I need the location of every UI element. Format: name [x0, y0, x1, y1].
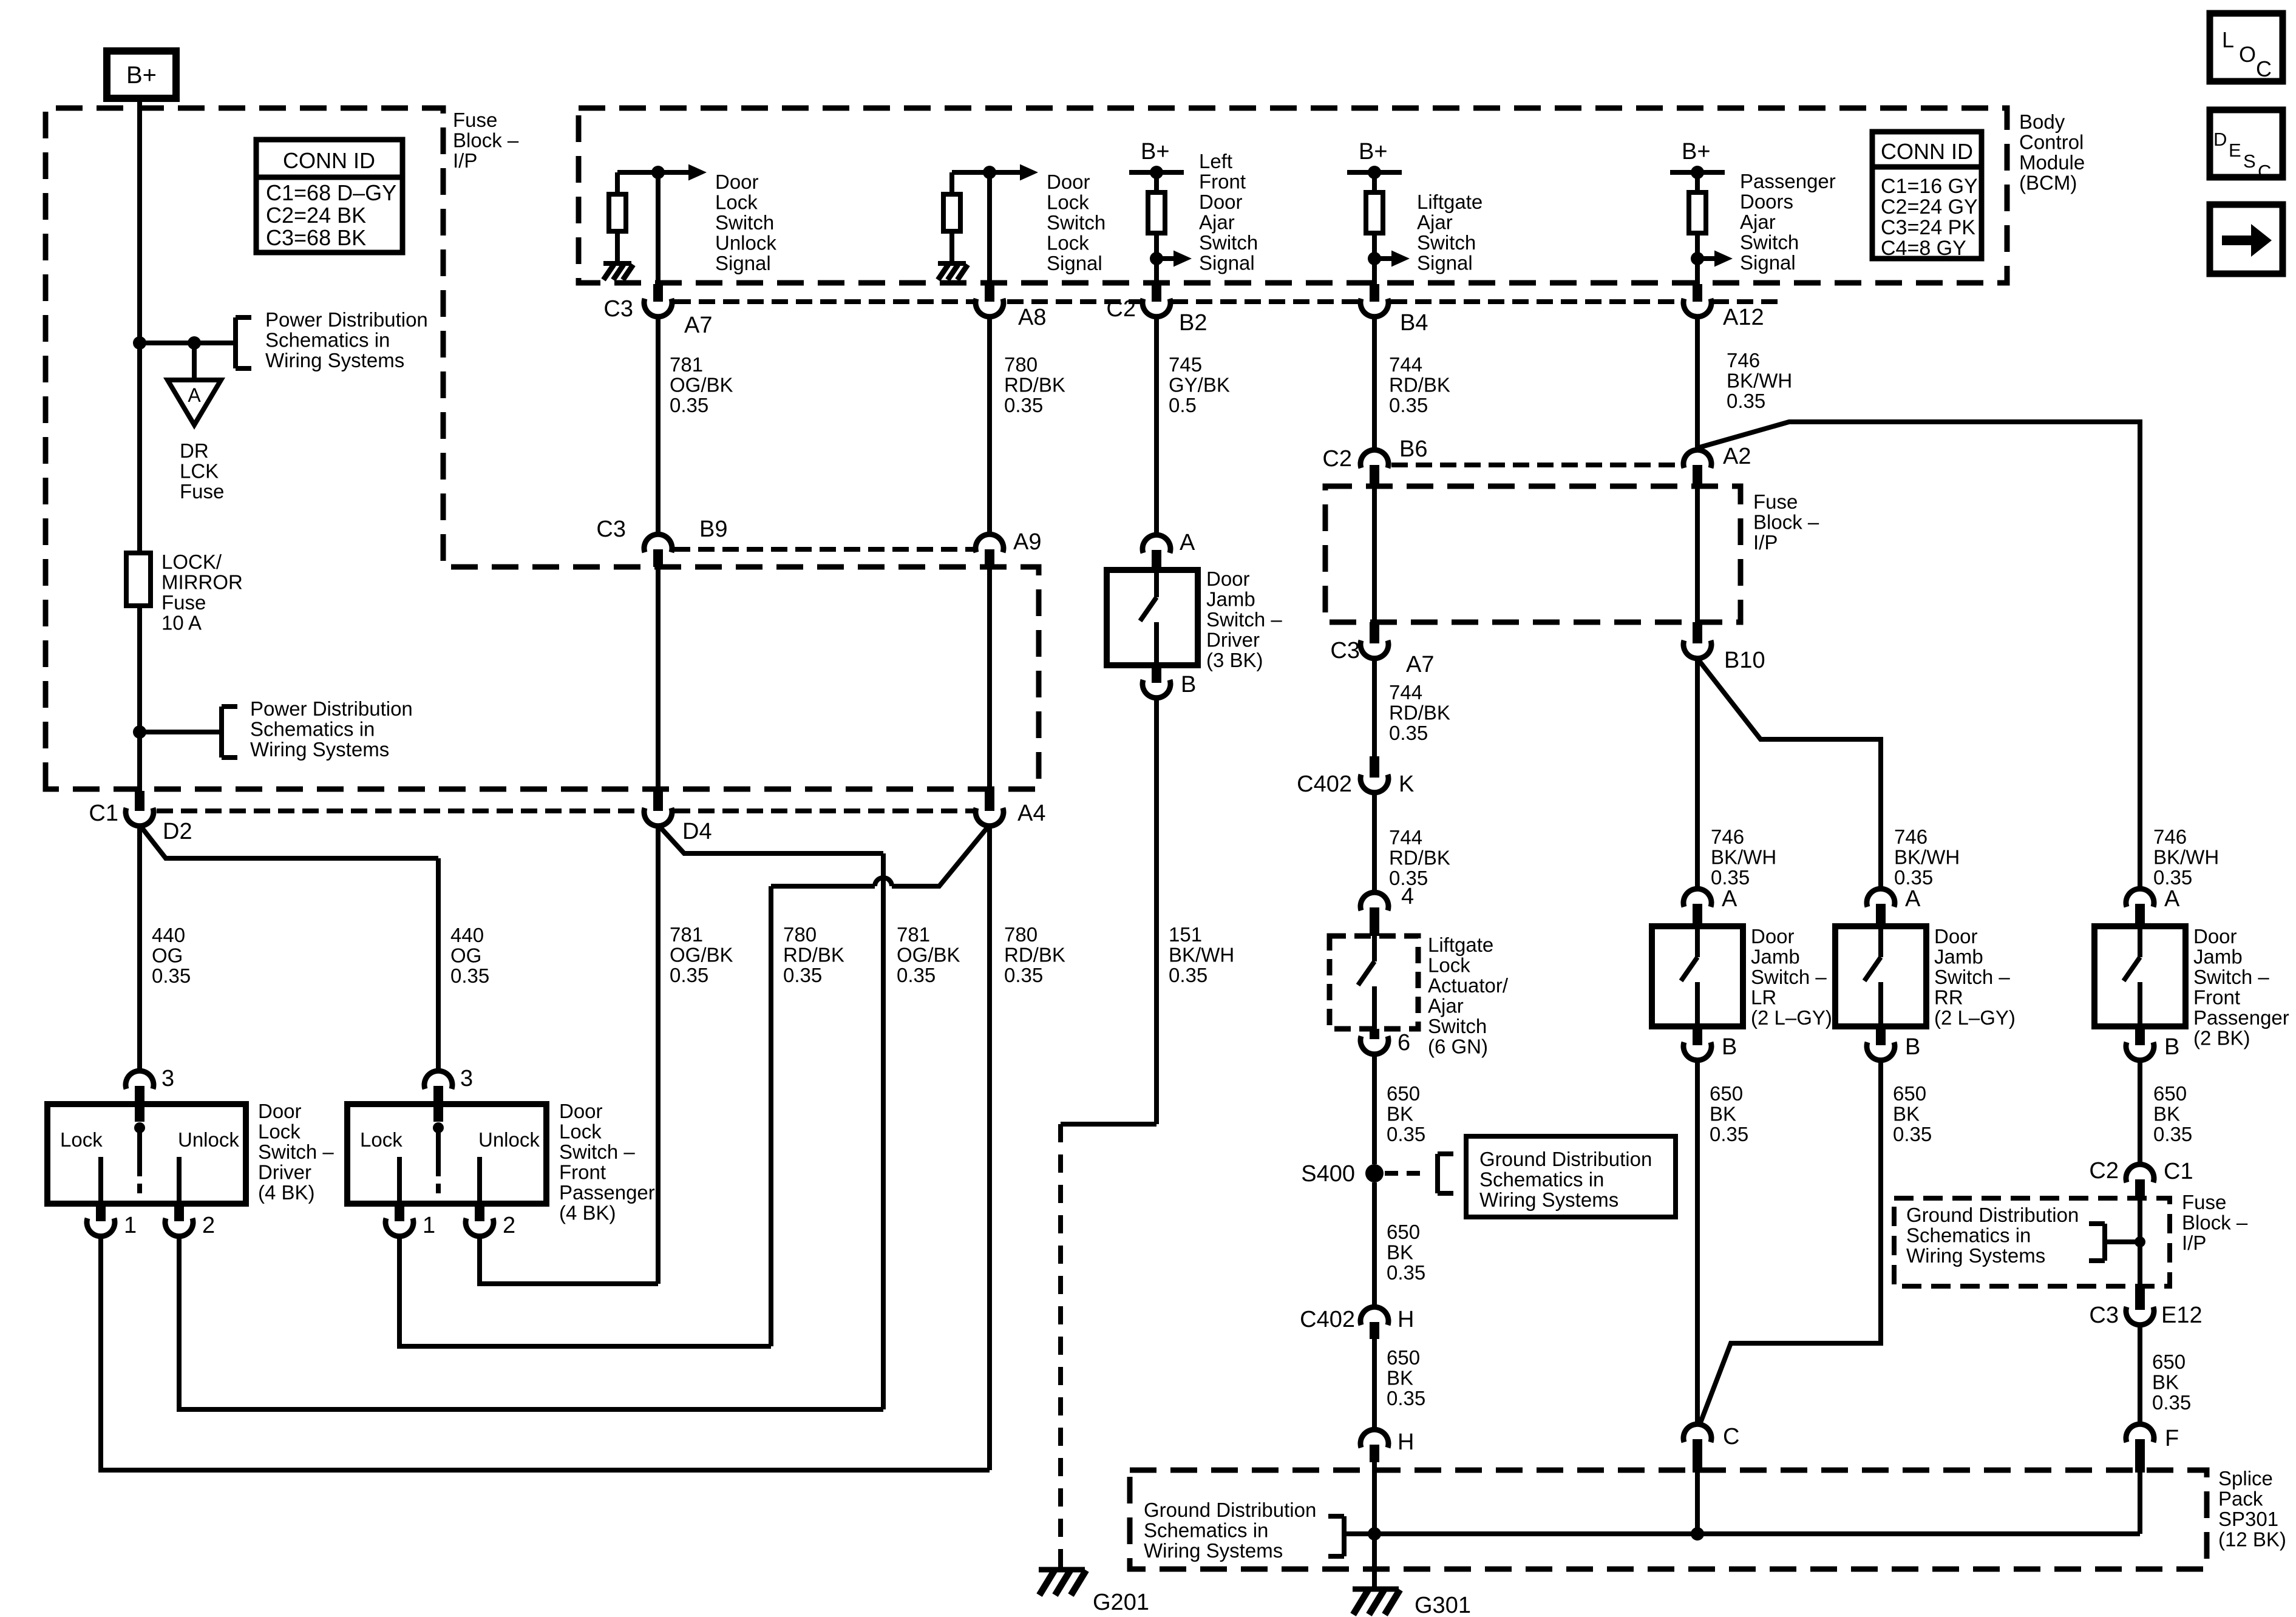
ground (BCM internal): [603, 261, 631, 266]
svg-text:0.35: 0.35: [152, 964, 191, 987]
fuse block bottom dotted connector row: [157, 808, 643, 813]
svg-text:OG/BK: OG/BK: [670, 374, 733, 396]
wire branch to power distribution note: [140, 341, 236, 345]
branch B10 to RR jamb switch: [1697, 659, 1881, 890]
svg-text:B9: B9: [699, 517, 727, 542]
svg-text:F: F: [2165, 1426, 2179, 1451]
signal arrow Liftgate Ajar Switch Signal: [1374, 256, 1391, 261]
wire 780 RD/BK: [987, 316, 992, 535]
svg-text:0.35: 0.35: [2152, 1391, 2191, 1414]
ground G301: [1353, 1587, 1399, 1592]
wire to connector A8: [987, 172, 992, 284]
wire 650 BK: [1372, 1053, 1377, 1164]
connector C1/D2: [135, 791, 144, 811]
connector F: [2126, 1424, 2154, 1442]
svg-text:Switch: Switch: [715, 211, 774, 234]
wire FP B to C2/C1: [2138, 1059, 2142, 1164]
svg-text:C3=24 PK: C3=24 PK: [1881, 216, 1975, 239]
door jamb switch box: [2094, 926, 2186, 1026]
connector A9: [985, 549, 994, 567]
connector A12: [1693, 284, 1702, 302]
svg-text:BK/WH: BK/WH: [1711, 846, 1776, 869]
wire 781 OG/BK: [656, 316, 661, 535]
svg-text:744: 744: [1389, 681, 1422, 703]
node: [651, 166, 665, 179]
signal arrow Door Lock Switch Lock Signal: [990, 170, 1020, 175]
svg-text:Door: Door: [1934, 925, 1978, 947]
svg-text:B: B: [1181, 672, 1196, 697]
svg-text:Signal: Signal: [1417, 252, 1473, 274]
svg-text:0.35: 0.35: [670, 394, 708, 416]
wire C1/D2 to driver lock pin 3 (440 OG): [137, 825, 142, 1072]
svg-text:0.35: 0.35: [1387, 1123, 1425, 1145]
svg-text:C: C: [2258, 161, 2271, 182]
B+ feed (left front door ajar): [1129, 170, 1184, 175]
svg-text:0.35: 0.35: [1727, 390, 1765, 412]
svg-text:1: 1: [423, 1213, 435, 1238]
svg-text:781: 781: [670, 353, 703, 376]
svg-text:(4 BK): (4 BK): [559, 1202, 616, 1224]
svg-text:RD/BK: RD/BK: [1389, 702, 1450, 724]
connector C402/K: [1370, 756, 1379, 778]
fuse block row dotted line: [674, 547, 974, 552]
svg-text:Passenger: Passenger: [559, 1181, 655, 1204]
svg-text:C3: C3: [596, 517, 626, 542]
fuse block I/P dashed outline (left): [46, 108, 1039, 789]
svg-text:O: O: [2239, 42, 2256, 67]
svg-text:C3=68 BK: C3=68 BK: [266, 225, 366, 250]
svg-text:Door: Door: [2193, 925, 2237, 947]
svg-text:Ajar: Ajar: [1199, 211, 1235, 234]
svg-text:D: D: [2213, 129, 2227, 150]
svg-text:Lock: Lock: [1428, 954, 1470, 977]
svg-text:BK: BK: [2153, 1103, 2180, 1125]
wire 744 RD/BK to liftgate actuator: [1372, 792, 1377, 893]
svg-text:BK/WH: BK/WH: [1169, 944, 1234, 966]
door jamb switch box: [1652, 926, 1743, 1026]
svg-text:A: A: [1180, 530, 1195, 555]
wire B10 to LR jamb switch: [1695, 657, 1700, 890]
connector D4: [653, 791, 663, 811]
svg-text:0.35: 0.35: [450, 964, 489, 987]
svg-text:Switch: Switch: [1428, 1015, 1487, 1037]
door lock switch box: [47, 1104, 246, 1204]
signal arrow Door Lock Switch Unlock Signal: [658, 170, 688, 175]
svg-text:(2 BK): (2 BK): [2193, 1027, 2250, 1049]
signal arrow Left Front Door Ajar Switch Signal: [1156, 256, 1173, 261]
svg-text:Lock: Lock: [715, 191, 758, 214]
door jamb switch driver box: [1107, 570, 1198, 665]
ground G201: [1039, 1567, 1085, 1573]
svg-text:CONN ID: CONN ID: [1881, 139, 1973, 164]
svg-text:RD/BK: RD/BK: [1389, 847, 1450, 869]
ground distribution note box: [1466, 1136, 1676, 1217]
pull-up resistor: [1154, 172, 1159, 192]
svg-text:Switch –: Switch –: [1206, 608, 1282, 631]
svg-text:780: 780: [783, 923, 817, 946]
wire A9 to A4: [987, 567, 992, 791]
svg-text:B: B: [2164, 1034, 2179, 1060]
body control module dashed outline: [579, 108, 2007, 283]
wire through fuse block: [2138, 1200, 2142, 1286]
svg-text:BK/WH: BK/WH: [1727, 370, 1792, 392]
wire 745 GY/BK: [1154, 316, 1159, 536]
svg-text:RD/BK: RD/BK: [1004, 374, 1065, 396]
svg-text:Switch: Switch: [1199, 231, 1258, 254]
wire D4 to passenger lock pin 2 (781): [656, 825, 661, 1284]
svg-text:Power Distribution: Power Distribution: [265, 308, 428, 331]
svg-text:A8: A8: [1018, 305, 1046, 330]
svg-text:(6 GN): (6 GN): [1428, 1036, 1488, 1058]
splice S400: [1365, 1164, 1384, 1182]
node: [1368, 252, 1381, 265]
svg-text:C: C: [1723, 1424, 1739, 1449]
svg-text:Liftgate: Liftgate: [1428, 934, 1493, 956]
svg-text:650: 650: [2152, 1351, 2186, 1373]
svg-text:Fuse: Fuse: [1753, 490, 1798, 513]
svg-text:Door: Door: [1047, 171, 1090, 193]
svg-text:780: 780: [1004, 923, 1038, 946]
dotted row at B6/A2: [1391, 463, 1682, 467]
svg-text:B+: B+: [1359, 139, 1388, 164]
wire A2 to B10: [1695, 487, 1700, 622]
svg-text:L: L: [2222, 27, 2234, 52]
svg-text:C1: C1: [89, 801, 118, 826]
svg-text:B: B: [1722, 1034, 1737, 1060]
svg-text:Switch: Switch: [1417, 231, 1476, 254]
CONN ID table (BCM): [1872, 132, 1982, 259]
svg-text:Jamb: Jamb: [1934, 946, 1983, 968]
svg-text:I/P: I/P: [1753, 531, 1778, 554]
svg-text:C2: C2: [1322, 446, 1352, 472]
wire passenger pin2 to 781 (y2115): [480, 1235, 658, 1284]
wire A12 to A2: [1695, 316, 1700, 451]
CONN ID table (fuse block): [256, 140, 402, 253]
connector B: [2135, 1026, 2145, 1045]
svg-text:745: 745: [1169, 353, 1202, 376]
svg-text:Door: Door: [258, 1100, 302, 1122]
wire B+ to C1: [137, 98, 142, 791]
svg-text:H: H: [1398, 1307, 1414, 1332]
svg-text:Signal: Signal: [1740, 251, 1796, 274]
svg-text:Lock: Lock: [258, 1120, 301, 1143]
wire inside fuse block: [1372, 487, 1377, 622]
svg-text:C3: C3: [2089, 1303, 2119, 1328]
svg-text:0.35: 0.35: [1711, 866, 1750, 889]
svg-text:4: 4: [1401, 884, 1414, 909]
wire 650 BK: [1372, 1182, 1377, 1307]
svg-text:Jamb: Jamb: [1206, 588, 1255, 611]
svg-text:LOCK/: LOCK/: [161, 551, 222, 573]
fuse triangle A (DR LCK Fuse): [168, 380, 221, 425]
wire 744 RD/BK: [1372, 316, 1377, 451]
BCM resistor (unlock signal bias): [615, 172, 620, 194]
svg-text:C: C: [2256, 56, 2272, 81]
connector A8: [985, 284, 994, 302]
svg-text:746: 746: [2153, 825, 2187, 848]
connector 4: [1360, 892, 1388, 910]
svg-text:Passenger: Passenger: [1740, 170, 1836, 192]
BCM resistor (lock signal bias): [949, 172, 954, 194]
branch to front passenger jamb switch: [1697, 422, 2140, 890]
svg-text:0.35: 0.35: [670, 964, 708, 986]
connector 6: [1370, 1029, 1379, 1039]
svg-text:A7: A7: [1406, 652, 1434, 677]
svg-text:C2: C2: [1106, 296, 1136, 322]
svg-text:RD/BK: RD/BK: [1389, 374, 1450, 396]
connector C2/C1: [2126, 1164, 2154, 1182]
node: [1691, 252, 1704, 265]
svg-text:SP301: SP301: [2218, 1508, 2278, 1530]
svg-text:650: 650: [1387, 1221, 1420, 1243]
connector pin 3: [126, 1071, 154, 1089]
svg-text:Schematics in: Schematics in: [1144, 1519, 1268, 1542]
svg-text:BK: BK: [1387, 1103, 1413, 1125]
svg-text:2: 2: [202, 1213, 215, 1238]
connector H (splice pack): [1360, 1429, 1388, 1448]
svg-text:C1=16 GY: C1=16 GY: [1881, 175, 1978, 198]
wire driver pin1 to 780 (y2422): [101, 1235, 990, 1470]
svg-text:Switch: Switch: [1047, 211, 1106, 234]
ground distribution reference bracket (S400): [1435, 1154, 1440, 1193]
svg-text:Jamb: Jamb: [2193, 946, 2243, 968]
svg-text:Signal: Signal: [715, 252, 771, 274]
svg-text:0.35: 0.35: [1387, 1261, 1425, 1284]
svg-text:Switch –: Switch –: [2193, 966, 2269, 988]
svg-text:781: 781: [897, 923, 930, 946]
node: [1150, 252, 1163, 265]
svg-text:440: 440: [450, 924, 484, 946]
wire resistor to node: [617, 170, 658, 175]
svg-text:(12 BK): (12 BK): [2218, 1528, 2286, 1551]
svg-text:BK/WH: BK/WH: [1894, 846, 1960, 869]
svg-text:0.35: 0.35: [783, 964, 822, 986]
svg-text:746: 746: [1711, 825, 1744, 848]
svg-text:A9: A9: [1013, 529, 1041, 555]
svg-text:Front: Front: [2193, 986, 2240, 1009]
svg-text:Control: Control: [2019, 131, 2084, 154]
svg-text:Ground Distribution: Ground Distribution: [1906, 1204, 2079, 1226]
splice pack SP301 dashed outline: [1130, 1470, 2207, 1569]
svg-text:Schematics in: Schematics in: [265, 329, 390, 351]
svg-text:B2: B2: [1179, 310, 1207, 336]
svg-text:Schematics in: Schematics in: [1906, 1224, 2031, 1247]
svg-text:Schematics in: Schematics in: [250, 718, 375, 741]
svg-text:K: K: [1399, 771, 1414, 797]
svg-text:RR: RR: [1934, 986, 1963, 1009]
svg-text:Driver: Driver: [258, 1161, 311, 1184]
svg-text:BK: BK: [1387, 1241, 1413, 1264]
svg-text:0.35: 0.35: [1894, 866, 1933, 889]
svg-text:744: 744: [1389, 353, 1422, 376]
svg-text:0.35: 0.35: [2153, 866, 2192, 889]
connector B: [1152, 665, 1161, 683]
svg-text:G301: G301: [1415, 1593, 1471, 1617]
svg-text:A: A: [2164, 886, 2180, 912]
B+ feed (passenger doors ajar): [1670, 170, 1725, 175]
svg-text:Block –: Block –: [1753, 511, 1819, 534]
svg-text:(2 L–GY): (2 L–GY): [1934, 1006, 2016, 1029]
svg-text:B6: B6: [1399, 436, 1427, 462]
svg-text:440: 440: [152, 924, 185, 946]
svg-text:Liftgate: Liftgate: [1417, 191, 1483, 213]
svg-text:650: 650: [2153, 1082, 2187, 1105]
svg-text:B+: B+: [1682, 139, 1711, 164]
svg-text:Ground Distribution: Ground Distribution: [1144, 1499, 1316, 1521]
svg-text:0.35: 0.35: [2153, 1123, 2192, 1145]
svg-text:Passenger: Passenger: [2193, 1006, 2289, 1029]
svg-text:C402: C402: [1297, 771, 1352, 797]
svg-text:LR: LR: [1751, 986, 1776, 1009]
svg-text:BK: BK: [1710, 1103, 1736, 1125]
splice junction: [1691, 1527, 1704, 1541]
svg-text:A12: A12: [1723, 305, 1764, 330]
connector C: [1683, 1424, 1711, 1442]
connector C402/H: [1360, 1307, 1388, 1325]
svg-text:Switch –: Switch –: [1934, 966, 2010, 988]
ground distribution reference bracket (fuse block): [2102, 1224, 2107, 1261]
BCM connector row dotted line: [674, 299, 974, 304]
svg-text:2: 2: [503, 1213, 515, 1238]
wire RR B to connector C (jog): [1699, 1059, 1881, 1426]
B+ feed (liftgate ajar): [1347, 170, 1402, 175]
connector A: [2126, 889, 2154, 907]
connector C3/A7: [653, 284, 663, 302]
svg-text:Fuse: Fuse: [161, 591, 206, 614]
svg-text:D4: D4: [682, 819, 712, 844]
connector pin 1: [395, 1204, 404, 1221]
wire 746 BK/WH: [1695, 316, 1700, 451]
svg-text:Door: Door: [715, 171, 759, 193]
svg-text:Wiring Systems: Wiring Systems: [1479, 1188, 1618, 1211]
power node B+: [107, 51, 176, 98]
pull-up resistor: [1372, 172, 1377, 192]
svg-text:Fuse: Fuse: [180, 480, 224, 503]
svg-text:RD/BK: RD/BK: [1004, 944, 1065, 966]
power distribution reference bracket: [233, 317, 238, 368]
connector A (door jamb driver): [1154, 316, 1159, 536]
svg-text:Door: Door: [1206, 568, 1250, 590]
svg-text:Driver: Driver: [1206, 629, 1260, 651]
wire to fuse A: [192, 343, 197, 380]
connector C3/E12: [2135, 1286, 2145, 1310]
svg-text:0.35: 0.35: [1389, 394, 1428, 416]
svg-text:A: A: [1905, 886, 1921, 912]
svg-text:(3 BK): (3 BK): [1206, 649, 1263, 671]
fuse LOCK/MIRROR 10A: [126, 553, 151, 606]
svg-text:B+: B+: [1141, 139, 1170, 164]
svg-text:C3: C3: [1330, 638, 1360, 663]
wire passenger pin1 to 780 (y2218): [399, 1235, 771, 1346]
svg-text:Switch: Switch: [1740, 231, 1799, 254]
svg-text:Switch –: Switch –: [258, 1141, 334, 1163]
connector A: [1867, 889, 1895, 907]
svg-text:0.35: 0.35: [1710, 1123, 1748, 1145]
svg-text:DR: DR: [180, 439, 209, 462]
svg-text:0.35: 0.35: [1004, 394, 1043, 416]
connector C2/B6: [1372, 316, 1377, 451]
svg-text:A7: A7: [684, 313, 712, 338]
svg-text:C1=68 D–GY: C1=68 D–GY: [266, 180, 396, 205]
junction node: [133, 336, 146, 350]
svg-text:Pack: Pack: [2218, 1488, 2263, 1510]
svg-text:3: 3: [460, 1066, 473, 1091]
svg-text:Door: Door: [1199, 191, 1243, 213]
ground distribution reference bracket (splice pack): [1342, 1516, 1347, 1556]
svg-text:(4 BK): (4 BK): [258, 1181, 315, 1204]
svg-text:S: S: [2243, 151, 2256, 172]
pull-up resistor: [1695, 172, 1700, 192]
connector C2/B2: [1152, 284, 1161, 302]
connector C3/A7 (liftgate): [1370, 622, 1379, 643]
svg-text:H: H: [1398, 1429, 1414, 1455]
svg-text:OG: OG: [450, 944, 481, 967]
svg-text:0.35: 0.35: [1389, 722, 1428, 744]
svg-text:650: 650: [1387, 1346, 1420, 1369]
svg-text:Ajar: Ajar: [1428, 995, 1464, 1017]
svg-text:Left: Left: [1199, 150, 1232, 172]
svg-text:E12: E12: [2161, 1303, 2203, 1328]
wire 744 RD/BK: [1372, 657, 1377, 756]
svg-text:Wiring Systems: Wiring Systems: [250, 738, 389, 761]
svg-text:B+: B+: [126, 62, 157, 89]
svg-text:0.5: 0.5: [1169, 394, 1197, 416]
svg-text:C402: C402: [1300, 1307, 1355, 1332]
door lock switch box: [347, 1104, 546, 1204]
connector B4: [1370, 284, 1379, 302]
svg-text:Jamb: Jamb: [1751, 946, 1800, 968]
wire C1/D2 jog to passenger lock pin 3 (440 OG): [140, 825, 438, 858]
svg-text:BK/WH: BK/WH: [2153, 846, 2219, 869]
wire 650 BK: [2138, 1324, 2142, 1425]
splice bar: [1343, 1531, 2140, 1536]
svg-text:OG: OG: [152, 944, 183, 967]
ground (BCM internal): [938, 261, 966, 266]
svg-text:650: 650: [1710, 1082, 1743, 1105]
wire LR B to connector C: [1695, 1059, 1700, 1425]
svg-text:Switch –: Switch –: [559, 1141, 635, 1163]
svg-text:1: 1: [124, 1213, 137, 1238]
connector A4: [985, 791, 994, 811]
junction node: [2135, 1236, 2145, 1247]
svg-text:Block –: Block –: [2182, 1212, 2248, 1234]
connector pin 2: [174, 1204, 184, 1221]
svg-text:B: B: [1905, 1034, 1920, 1060]
wire resistor to node: [952, 170, 990, 175]
svg-text:Switch –: Switch –: [1751, 966, 1827, 988]
power distribution reference bracket 2: [219, 707, 224, 758]
svg-text:MIRROR: MIRROR: [161, 571, 243, 594]
svg-text:Lock: Lock: [1047, 232, 1089, 254]
svg-text:LCK: LCK: [180, 460, 219, 483]
svg-text:GY/BK: GY/BK: [1169, 374, 1230, 396]
arrow legend box: [2210, 205, 2283, 274]
node: [983, 166, 996, 179]
svg-text:Block –: Block –: [453, 129, 519, 152]
liftgate lock actuator/ajar switch dashed box: [1330, 936, 1418, 1029]
svg-text:C2=24 BK: C2=24 BK: [266, 203, 366, 228]
svg-text:BK: BK: [1387, 1367, 1413, 1389]
LOC legend box: [2210, 13, 2283, 81]
svg-text:650: 650: [1387, 1082, 1420, 1105]
svg-text:C2=24 GY: C2=24 GY: [1881, 195, 1978, 219]
svg-text:(2 L–GY): (2 L–GY): [1751, 1006, 1832, 1029]
svg-text:A4: A4: [1017, 801, 1045, 826]
svg-text:Door: Door: [1751, 925, 1795, 947]
svg-text:Body: Body: [2019, 110, 2065, 133]
svg-text:Wiring Systems: Wiring Systems: [265, 349, 404, 371]
svg-text:C4=8 GY: C4=8 GY: [1881, 237, 1966, 260]
